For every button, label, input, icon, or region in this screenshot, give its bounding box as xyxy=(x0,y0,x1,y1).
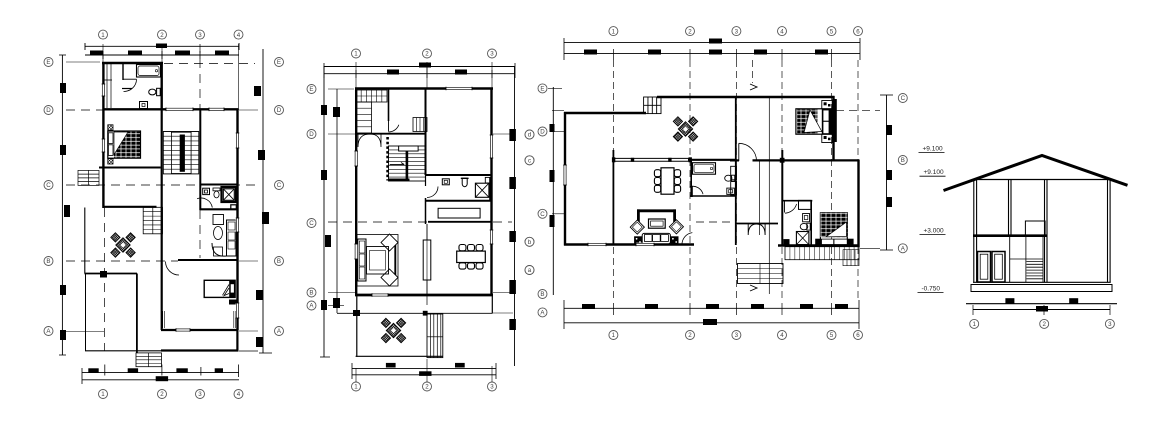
plan2 grid bubble A left xyxy=(307,301,316,310)
elevation window 2 xyxy=(992,252,1005,283)
plan1 grid bubble 3 top xyxy=(196,30,205,39)
elevation bubble 2 xyxy=(1040,319,1049,328)
plan3 grid bubble C right xyxy=(898,94,907,103)
plan2 wallcab xyxy=(442,179,449,185)
plan1 nightstand xyxy=(229,300,237,305)
svg-text:B: B xyxy=(309,290,313,297)
plan2 window bottom wall xyxy=(372,293,388,297)
plan3 grid bubble a left inner xyxy=(525,266,534,275)
plan3 grid bubble 3 bottom xyxy=(732,331,741,340)
svg-text:C: C xyxy=(277,182,282,189)
plan2 french doors xyxy=(358,134,381,147)
plan1 right dimension line xyxy=(262,49,264,353)
plan1 bath2 washbox xyxy=(203,188,210,194)
plan2 grid line D xyxy=(328,133,356,135)
svg-text:2: 2 xyxy=(1042,321,1046,328)
plan1 window bottom wall xyxy=(176,328,190,332)
plan1 grid bubble 4 top xyxy=(234,30,243,39)
plan3 bed top nightstand a xyxy=(822,101,832,109)
plan1 grid bubble C right xyxy=(275,181,284,190)
plan2 window right wall a xyxy=(490,135,494,158)
elevation left wall xyxy=(973,180,975,283)
svg-text:2: 2 xyxy=(688,332,692,339)
plan3 bath2 toilet xyxy=(800,223,808,229)
plan2 left wall xyxy=(355,88,357,296)
plan1 lower staircase xyxy=(143,207,162,234)
plan1 window wall D b xyxy=(166,108,193,112)
elevation stair column xyxy=(1009,236,1011,283)
svg-text:B: B xyxy=(46,258,50,265)
plan1 window right wall b xyxy=(236,218,240,232)
elevation bottom dim xyxy=(973,309,1110,311)
svg-text:E: E xyxy=(46,59,50,66)
plan3 grid bubble d left inner xyxy=(525,130,534,139)
plan1 bathtub xyxy=(137,65,161,78)
plan3 section arrow bottom xyxy=(750,285,757,291)
svg-text:4: 4 xyxy=(237,32,241,39)
plan3 grid bubble 4 top xyxy=(778,27,787,36)
plan3 grid line 6 xyxy=(857,60,859,300)
plan2 right dim line xyxy=(514,66,516,366)
plan3 grid line E xyxy=(548,87,562,89)
plan3 grid line 1 xyxy=(612,60,614,300)
elevation bubble 1 xyxy=(970,319,979,328)
plan2 hall door arc xyxy=(389,125,399,132)
plan2 grid bubble B left xyxy=(307,288,316,297)
plan1 toilet2 xyxy=(213,188,220,191)
plan2 grid bubble 1 bottom xyxy=(352,382,361,391)
plan3 right dim line xyxy=(886,95,888,250)
plan2 center wall x425 bath xyxy=(425,175,427,186)
plan2 terrace left edge xyxy=(356,296,358,357)
svg-text:D: D xyxy=(277,107,282,114)
svg-text:D: D xyxy=(540,129,545,136)
svg-text:2: 2 xyxy=(688,28,692,35)
plan2 wall y198 bath bottom xyxy=(426,200,493,202)
plan2 grid bubble D right xyxy=(525,130,534,139)
plan1 hall bottom wall xyxy=(103,206,157,208)
plan1 staircase upper xyxy=(163,132,199,174)
plan1 bath1 door arc xyxy=(124,79,137,91)
svg-text:4: 4 xyxy=(780,332,784,339)
plan1 grid bubble 4 bottom xyxy=(234,390,243,399)
plan3 window bottom-left b xyxy=(636,243,654,247)
svg-text:3: 3 xyxy=(198,32,202,39)
plan2 grid bubble E left xyxy=(307,85,316,94)
plan2 window right wall b xyxy=(490,230,494,244)
plan2 patio table xyxy=(381,318,390,327)
plan3 bath2 shelf xyxy=(799,200,811,209)
plan3 window bottom-left a xyxy=(588,243,606,247)
plan1 window right wall a xyxy=(236,133,240,148)
plan3 porch corner hatch xyxy=(843,250,859,266)
plan1 living door arc xyxy=(166,262,180,276)
plan1 grid bubble C left xyxy=(44,181,53,190)
plan3 washbasin xyxy=(725,175,732,181)
plan3 grid line D xyxy=(552,131,566,133)
plan1 column marks row xyxy=(88,368,98,373)
plan2 center wall x425 lower xyxy=(426,224,428,240)
plan3 grid bubble D left outer xyxy=(538,127,547,136)
plan1 window left wall b xyxy=(102,139,106,152)
plan1 grid bubble A right xyxy=(275,327,284,336)
plan3 left top wall xyxy=(564,112,646,114)
elevation stair shelf xyxy=(1010,258,1043,260)
plan3 hall door xyxy=(738,143,740,161)
plan1 grid bubble B left xyxy=(44,257,53,266)
plan3 small box xyxy=(727,188,735,194)
plan3 grid bubble b left inner xyxy=(525,237,534,246)
plan1 closet shelves xyxy=(106,64,108,108)
plan2 grid line 3 xyxy=(491,62,493,88)
plan1 top dim line 2 xyxy=(85,54,239,56)
plan3 grid line C xyxy=(552,213,566,215)
plan1 left dimension line xyxy=(61,55,63,355)
plan1 right wall xyxy=(236,109,238,330)
plan1 bed1 xyxy=(108,131,141,158)
elevation stair left edge xyxy=(1025,236,1027,283)
plan2 wall y173 bath top xyxy=(426,174,493,176)
plan1 porch rect xyxy=(161,349,239,351)
plan3 entry steps xyxy=(738,264,784,284)
svg-text:D: D xyxy=(46,107,51,114)
plan2 central staircase xyxy=(389,146,426,181)
plan2 dining table xyxy=(457,251,486,262)
plan3 bottom dim line 2 xyxy=(564,322,859,324)
plan3 top dim line 1 xyxy=(564,41,860,43)
plan3 left dim line xyxy=(552,87,554,295)
plan3 right wall upper xyxy=(832,96,834,160)
plan3 grid line 4 xyxy=(781,60,783,300)
svg-text:b: b xyxy=(528,239,532,246)
plan2 eave line left xyxy=(336,89,338,313)
plan1 grid line D xyxy=(66,109,122,111)
plan3 grid bubble 4 bottom xyxy=(778,331,787,340)
plan2 terrace stairs xyxy=(427,314,443,358)
svg-text:C: C xyxy=(309,220,314,227)
plan3 bottom right wall xyxy=(778,244,859,246)
plan1 window wall D xyxy=(209,108,224,112)
plan2 top wall xyxy=(355,87,493,89)
plan1 wall D xyxy=(103,108,239,110)
plan1 grid line B xyxy=(66,260,178,262)
elevation plinth xyxy=(971,285,1112,292)
plan3 grid line 5 xyxy=(831,60,833,300)
plan2 stairs top-left xyxy=(356,90,387,102)
plan3 door arc right of living xyxy=(682,233,692,245)
plan3 grid line 2 xyxy=(689,60,691,300)
plan3 grid bubble B right xyxy=(898,156,907,165)
svg-text:6: 6 xyxy=(856,28,860,35)
plan3 bed top nightstand b xyxy=(822,134,832,142)
svg-text:C: C xyxy=(540,211,545,218)
svg-text:3: 3 xyxy=(1108,321,1112,328)
plan3 grid bubble C left outer xyxy=(538,209,547,218)
plan1 closet wall xyxy=(122,62,124,80)
plan1 grid bubble E right xyxy=(275,58,284,67)
plan3 grid bubble 6 bottom xyxy=(854,331,863,340)
plan1 bath1 wall piece xyxy=(122,88,132,90)
plan1 grid bubble D left xyxy=(44,106,53,115)
plan1 terrace bottom edge xyxy=(85,350,161,352)
plan3 grid bubble 5 top xyxy=(827,27,836,36)
svg-text:3: 3 xyxy=(490,51,494,58)
plan3 grid line B xyxy=(860,247,880,249)
svg-text:-0.750: -0.750 xyxy=(922,286,941,293)
plan2 grid bubble 3 top xyxy=(488,49,497,58)
plan2 bath door arc xyxy=(427,187,438,198)
plan3 bath2 wall top xyxy=(783,200,812,202)
svg-text:E: E xyxy=(309,86,313,93)
plan1 grid bubble 1 top xyxy=(99,30,108,39)
plan1 grid line A xyxy=(66,331,104,333)
plan2 grid bubble D left xyxy=(307,130,316,139)
plan2 mini stairs xyxy=(413,118,427,132)
plan1 terrace left edge xyxy=(85,274,87,352)
plan3 far right wall xyxy=(857,160,859,248)
plan3 bath2 corner xyxy=(783,239,789,245)
plan3 bath1 top wall xyxy=(688,159,736,161)
plan2 center wall x425 upper xyxy=(425,88,427,175)
plan2 right wall xyxy=(490,88,492,296)
plan2 window left wall b xyxy=(354,244,358,259)
plan3 grid bubble 5 bottom xyxy=(827,331,836,340)
elevation right wall xyxy=(1107,180,1109,283)
plan2 top dim line 1 xyxy=(324,66,515,68)
plan3 entry double door xyxy=(748,224,765,235)
plan2 terrace bottom xyxy=(356,355,443,357)
plan1 grid line 3 xyxy=(199,44,201,110)
plan1 top wall E xyxy=(102,62,163,64)
plan1 top dimension line xyxy=(85,45,239,47)
plan2 sofa set xyxy=(357,235,398,287)
plan1 bed1 nightstand bottom xyxy=(108,159,113,164)
plan1 grid line 1 xyxy=(102,44,104,62)
plan1 bath2 top wall xyxy=(200,184,239,186)
plan3 grid bubble B left outer xyxy=(538,290,547,299)
plan1 grid bubble 1 bottom xyxy=(99,390,108,399)
plan1 interior wall x162 lower xyxy=(161,110,163,330)
svg-text:5: 5 xyxy=(830,28,834,35)
plan1 bumpout left edge xyxy=(84,208,86,274)
plan2 grid bubble 2 top xyxy=(423,49,432,58)
svg-text:3: 3 xyxy=(735,332,739,339)
plan3 grid bubble A right xyxy=(898,244,907,253)
plan3 hall line b xyxy=(768,97,770,294)
svg-text:1: 1 xyxy=(101,391,105,398)
plan3 grid bubble 1 bottom xyxy=(609,331,618,340)
plan2 column mark xyxy=(353,310,360,316)
plan1 entry stairs xyxy=(136,353,162,367)
plan1 bottom dim line 1 xyxy=(82,372,239,374)
plan1 wall x200 xyxy=(199,110,201,210)
plan2 bottom dim line xyxy=(352,367,496,369)
svg-text:E: E xyxy=(540,86,544,93)
elevation bubble 3 xyxy=(1105,319,1114,328)
plan2 grid line 1 xyxy=(355,62,357,88)
plan1 sofa L xyxy=(213,215,224,225)
svg-text:3: 3 xyxy=(198,391,202,398)
plan3 grid bubble 1 top xyxy=(609,27,618,36)
svg-text:d: d xyxy=(528,132,532,139)
plan1 bath2 door arc xyxy=(197,198,212,208)
plan1 grid2 wall upper xyxy=(160,62,162,110)
plan3 grid bubble 2 top xyxy=(686,27,695,36)
svg-text:2: 2 xyxy=(160,391,164,398)
plan3 grid bubble 2 bottom xyxy=(686,331,695,340)
plan3 top dim line 2 xyxy=(564,53,860,55)
svg-text:2: 2 xyxy=(425,384,429,391)
plan3 porch strip xyxy=(785,247,859,260)
plan3 grid bubble E left outer xyxy=(538,84,547,93)
plan3 bath2 wall right xyxy=(810,201,812,245)
plan1 window left wall a xyxy=(102,84,106,96)
plan1 grid bubble 2 bottom xyxy=(158,390,167,399)
plan1 toilet1 xyxy=(157,88,161,95)
plan1 grid bubble 3 bottom xyxy=(196,390,205,399)
plan2 window left wall a xyxy=(354,151,358,166)
svg-text:B: B xyxy=(540,291,544,298)
plan3 grid bubble c left inner xyxy=(525,156,534,165)
plan1 bedroom2 window right xyxy=(235,311,237,328)
plan2 grid line B xyxy=(328,292,355,294)
plan1 grid bubble D right xyxy=(275,106,284,115)
plan2 closet xyxy=(438,208,480,218)
svg-text:6: 6 xyxy=(856,332,860,339)
plan3 bottom-left wall xyxy=(564,243,694,245)
svg-text:1: 1 xyxy=(354,51,358,58)
svg-text:c: c xyxy=(528,158,531,165)
plan3 grid bubble A left outer xyxy=(538,308,547,317)
plan3 window wall dining xyxy=(613,157,691,159)
plan3 wall y223 entry xyxy=(736,223,778,225)
plan3 interior wall x613 xyxy=(612,150,614,245)
plan2 grid bubble C right xyxy=(525,237,534,246)
plan1 grid bubble B right xyxy=(275,257,284,266)
plan3 bath1 left wall xyxy=(690,160,692,197)
plan2 window top wall xyxy=(446,87,472,91)
plan2 grid bubble 1 top xyxy=(352,49,361,58)
plan3 dining table xyxy=(661,168,674,194)
plan1 window right wall c xyxy=(236,303,240,318)
plan1 bath2 bottom wall xyxy=(200,208,239,210)
plan3 bath2 shower xyxy=(796,232,809,245)
svg-text:B: B xyxy=(277,258,281,265)
plan3 left wall xyxy=(564,112,566,246)
svg-text:a: a xyxy=(528,267,532,274)
elevation step box xyxy=(1025,221,1045,236)
plan1 bed1 nightstand top xyxy=(108,125,113,130)
plan3 column g4 xyxy=(780,158,785,163)
plan1 bedroom2 bottom wall xyxy=(161,329,239,331)
plan1 grid bubble E left xyxy=(44,58,53,67)
plan2 wall y131 xyxy=(355,133,426,135)
plan2 wall x389 upper xyxy=(388,88,390,121)
svg-text:3: 3 xyxy=(735,28,739,35)
plan2 wall y221 xyxy=(428,221,492,223)
plan2 grid bubble 2 bottom xyxy=(423,382,432,391)
plan3 bath door arc xyxy=(690,186,703,194)
svg-text:2: 2 xyxy=(160,32,164,39)
plan3 wall y160 right xyxy=(753,159,860,161)
plan1 bed2 xyxy=(204,280,235,297)
svg-text:C: C xyxy=(46,182,51,189)
plan2 grid line 2 xyxy=(426,62,428,88)
plan1 step wall vertical xyxy=(136,274,138,354)
svg-text:+9.100: +9.100 xyxy=(924,169,944,176)
plan1 bottom dim line 2 xyxy=(82,379,239,381)
plan3 section arrow top xyxy=(750,84,757,90)
plan3 top stairs notch xyxy=(644,97,661,114)
plan1 step wall horizontal xyxy=(85,273,138,275)
plan2 grid line C xyxy=(328,221,512,223)
elevation stair treads xyxy=(1026,260,1043,262)
plan1 bedroom1 bottom wall xyxy=(99,167,161,169)
plan1 washer xyxy=(140,102,148,109)
svg-text:2: 2 xyxy=(425,51,429,58)
plan2 grid bubble 3 bottom xyxy=(488,382,497,391)
plan3 interior wall x782 xyxy=(781,150,783,246)
plan2 grid line E xyxy=(328,88,354,90)
plan1 shower2 xyxy=(222,187,237,202)
plan3 bath3 wall y196 xyxy=(690,195,736,197)
svg-text:E: E xyxy=(277,59,281,66)
plan3 bed bottom xyxy=(820,213,847,245)
elevation center wall xyxy=(1044,180,1046,283)
elevation wall top xyxy=(973,179,1111,181)
plan1 outside steps xyxy=(78,170,99,185)
plan2 grid bubble F right xyxy=(525,156,534,165)
svg-text:+9.100: +9.100 xyxy=(923,146,943,153)
plan2 toilet3 xyxy=(461,177,469,179)
plan1 bedroom2 window left xyxy=(162,311,164,328)
svg-text:5: 5 xyxy=(830,332,834,339)
plan1 grid bubble 2 top xyxy=(158,30,167,39)
plan3 bed top xyxy=(796,109,832,134)
plan1 grid line 2 xyxy=(161,44,163,62)
plan1 living wall B xyxy=(178,259,238,261)
svg-text:1: 1 xyxy=(612,28,616,35)
plan2 grid bubble B right xyxy=(525,266,534,275)
plan2 grid line A stub xyxy=(493,312,513,314)
plan2 glass door xyxy=(423,240,431,280)
elevation floor slab xyxy=(973,234,1047,237)
plan3 bathtub xyxy=(693,163,716,175)
plan3 grid bubble 3 top xyxy=(732,27,741,36)
plan3 bath2 door xyxy=(785,204,797,213)
elevation plinth base xyxy=(966,303,1117,305)
plan2 top dim line 2 xyxy=(324,73,515,75)
plan3 window left wall xyxy=(563,165,567,185)
svg-text:+3.000: +3.000 xyxy=(924,228,944,235)
plan3 bath1 shelf boxes xyxy=(731,166,737,180)
svg-text:C: C xyxy=(901,95,906,102)
svg-text:1: 1 xyxy=(354,384,358,391)
plan1 grid line E xyxy=(66,61,100,63)
plan3 bottom dim line 1 xyxy=(564,307,859,309)
plan1 grid line C xyxy=(66,184,258,186)
plan2 terrace right edge xyxy=(491,296,493,314)
svg-text:D: D xyxy=(309,131,314,138)
svg-text:4: 4 xyxy=(237,391,241,398)
svg-text:1: 1 xyxy=(612,332,616,339)
plan2 grid bubble C left xyxy=(307,219,316,228)
svg-text:4: 4 xyxy=(780,28,784,35)
elevation mid wall 1 xyxy=(1008,180,1010,236)
svg-text:1: 1 xyxy=(972,321,976,328)
svg-text:3: 3 xyxy=(490,384,494,391)
plan2 bottom wall xyxy=(355,294,493,297)
